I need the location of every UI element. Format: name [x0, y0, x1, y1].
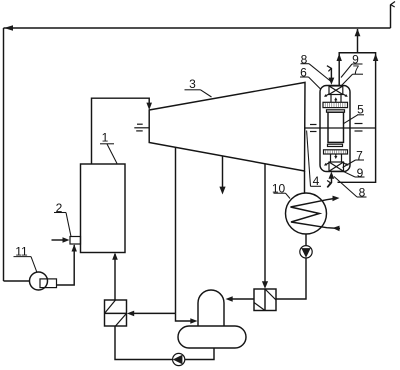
label 9 bottom: [342, 166, 365, 180]
vessel U4 shell: [320, 86, 350, 172]
condenser outer box: [337, 53, 379, 183]
svg-text:1: 1: [102, 131, 109, 145]
label 4: [307, 131, 321, 189]
heat exchanger HE2: [254, 289, 276, 311]
label 6: [300, 66, 321, 90]
wire pump P2 to HE2: [276, 258, 306, 299]
top distributor X-box: [329, 86, 343, 95]
label 1: [100, 131, 117, 164]
wire top return line: [4, 25, 391, 31]
wire bottom-left to fan: [4, 280, 30, 282]
svg-text:8: 8: [301, 53, 308, 67]
vessel inlet break chevron and arrow: [327, 66, 334, 85]
wire extraction 1: [175, 148, 177, 314]
pump P2: [300, 246, 312, 258]
svg-text:7: 7: [353, 63, 360, 77]
label 11: [14, 245, 38, 273]
HX10 coil with outlet arrow: [291, 196, 341, 232]
bottom collector X-box: [329, 162, 344, 171]
wire turbine exhaust to condenser HX: [304, 171, 306, 193]
long section line through vessel: [305, 127, 376, 129]
wire pump P1 to HE1: [115, 326, 173, 360]
wire HX10 to pump P2: [305, 234, 307, 246]
core top lip: [327, 110, 345, 112]
label 8 bottom: [334, 177, 367, 200]
break dashes right of vessel: [355, 124, 363, 132]
top tray band: [323, 102, 348, 107]
boiler B1: [81, 164, 126, 253]
wire HE2 to dome: [226, 296, 255, 302]
vessel bottom arrow and break chevron: [327, 172, 334, 188]
wire right riser to top line: [390, 5, 392, 28]
bottom tray band: [324, 150, 348, 154]
wire left return line: [3, 28, 5, 281]
wire fan to valve 2: [57, 245, 75, 285]
core bottom lip: [328, 144, 343, 146]
wire extraction 1 to HE1: [127, 311, 176, 317]
deaerator dome: [198, 290, 224, 326]
svg-text:9: 9: [357, 166, 364, 180]
wire steam line boiler to turbine: [92, 98, 150, 164]
label 5: [344, 103, 364, 124]
core C5: [328, 112, 344, 142]
label 9 top: [341, 52, 363, 77]
break chevron top-right: [391, 2, 395, 8]
fan F11: [30, 272, 57, 290]
label 8 top: [301, 53, 332, 82]
input arrow into valve 2: [52, 237, 70, 242]
label 3: [185, 77, 212, 97]
deaerator tank: [178, 326, 246, 348]
break dashes left of vessel: [310, 125, 317, 132]
bottom stem: [331, 154, 342, 162]
label 2: [54, 201, 71, 237]
heat exchanger HE1: [105, 300, 127, 326]
bottom spray arrows: [324, 163, 349, 166]
label 7 top: [342, 63, 364, 86]
wire condenser outlet to top line: [355, 29, 361, 53]
top stem: [331, 95, 341, 103]
top spray arrows: [324, 94, 348, 97]
turbine T3: [149, 82, 305, 171]
wire extraction 3 to HE2: [262, 164, 268, 289]
heat exchanger HX10 circle: [286, 193, 327, 234]
wire extraction 2 (exhaust arrow): [219, 156, 225, 195]
label 10: [272, 182, 290, 199]
svg-text:3: 3: [189, 77, 196, 91]
wire tank outlet: [185, 348, 214, 360]
valve V2: [70, 237, 81, 245]
pump P1: [173, 353, 185, 365]
label 7 bottom: [343, 149, 365, 168]
wire HE1 to boiler: [112, 253, 118, 301]
ground marks at turbine inlet side: [134, 124, 149, 131]
wire extraction 1 to deaerator dome: [176, 313, 198, 323]
